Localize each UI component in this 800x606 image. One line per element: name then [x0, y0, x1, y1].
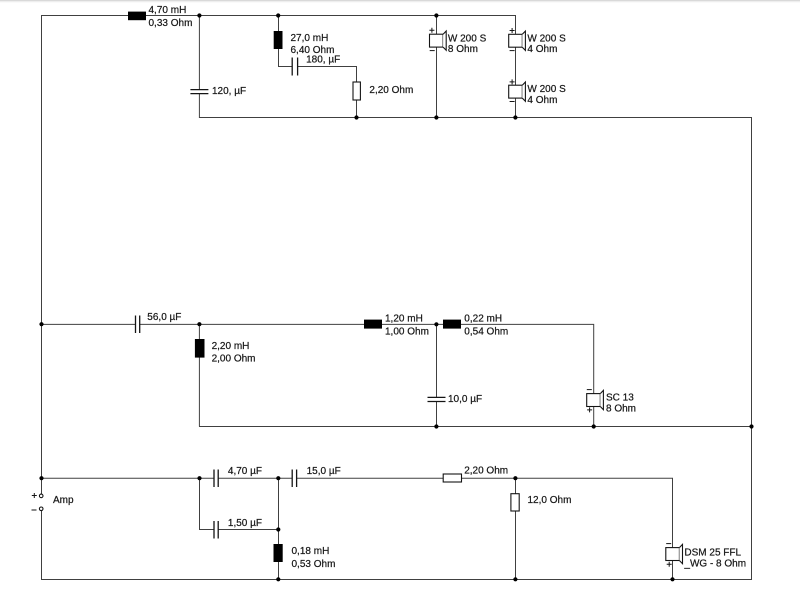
wire: 120uF to top-section bottom bus	[198, 94, 200, 118]
wire: mid bus from 56uF to SC13 elbow	[140, 324, 594, 426]
inductor 0,22 mH / 0,54 Ohm	[443, 314, 508, 338]
resistor 12,0 Ohm	[511, 494, 572, 511]
svg-text:1,50 µF: 1,50 µF	[228, 518, 262, 529]
capacitor 4,70 uF	[214, 466, 262, 487]
capacitor 15,0 uF	[292, 466, 341, 487]
svg-text:2,20 Ohm: 2,20 Ohm	[369, 85, 413, 96]
resistor 2,20 Ohm (bottom section)	[443, 466, 508, 482]
junction node: mid bus / 2,20mH tap	[197, 322, 201, 326]
svg-text:0,53 Ohm: 0,53 Ohm	[292, 559, 336, 570]
junction node: mid bottom bus / right rail	[749, 424, 753, 428]
inductor 1,20 mH / 1,00 Ohm	[364, 314, 429, 338]
loudspeaker DSM 25 FFL _WG - 8 Ohm	[666, 544, 746, 570]
wire: drop through 27mH inductor	[278, 16, 280, 68]
capacitor 10,0 uF	[428, 394, 483, 405]
capacitor 180, uF	[292, 55, 340, 76]
svg-text:0,22 mH: 0,22 mH	[464, 314, 502, 325]
junction node: low bus / 1,50uF tap	[197, 476, 201, 480]
svg-text:2,00 Ohm: 2,00 Ohm	[212, 353, 256, 364]
wire: left rail upper (to amp + terminal)	[41, 15, 43, 494]
loudspeaker W 200 S 4 Ohm (lower)	[509, 79, 566, 106]
wire: 10uF branch upper	[436, 324, 438, 397]
loudspeaker W 200 S 8 Ohm	[429, 28, 486, 56]
svg-text:8 Ohm: 8 Ohm	[448, 44, 478, 55]
wire: 1,50uF branch left elbow	[200, 478, 215, 529]
junction node: SC13 bottom	[592, 424, 596, 428]
inductor 27,0 mH / 6,40 Ohm	[274, 31, 335, 56]
svg-text:4,70 µF: 4,70 µF	[228, 466, 262, 477]
junction node: low bus / 0,18mH tap	[276, 476, 280, 480]
wire: low bus between 4,70uF and 15,0uF	[218, 477, 292, 479]
wire: 2,20mH branch drop	[198, 324, 200, 426]
capacitor 1,50 uF	[214, 518, 262, 539]
capacitor 120, uF	[190, 86, 246, 97]
junction node: left rail low tap	[39, 476, 43, 480]
svg-text:1,20 mH: 1,20 mH	[385, 314, 423, 325]
wire: 1,50uF branch right	[218, 529, 279, 531]
junction node: 10uF bottom	[434, 424, 438, 428]
junction node: 12 Ohm bottom	[513, 577, 517, 581]
junction node: low bus / 12 Ohm tap	[513, 476, 517, 480]
svg-text:0,54 Ohm: 0,54 Ohm	[464, 327, 508, 338]
junction node: series branch bottom	[513, 115, 517, 119]
svg-text:0,33 Ohm: 0,33 Ohm	[149, 18, 193, 29]
svg-text:120, µF: 120, µF	[212, 86, 246, 97]
svg-text:56,0 µF: 56,0 µF	[147, 312, 181, 323]
inductor 2,20 mH / 2,00 Ohm	[195, 339, 256, 364]
junction node: DSM bottom	[670, 577, 674, 581]
wire: bottom bus	[41, 579, 752, 581]
svg-text:2,20 mH: 2,20 mH	[212, 341, 250, 352]
svg-text:8 Ohm: 8 Ohm	[606, 403, 636, 414]
svg-text:15,0 µF: 15,0 µF	[307, 466, 341, 477]
junction node: top bus / 120uF tap	[197, 13, 201, 17]
wire: right rail	[751, 117, 753, 580]
svg-text:W 200 S: W 200 S	[527, 33, 566, 44]
wire: top-section bottom bus	[199, 117, 752, 119]
junction node: top bus / 27mH tap	[276, 13, 280, 17]
wire: top horizontal bus	[41, 15, 516, 17]
junction node: mid bus / 10uF tap	[434, 322, 438, 326]
wire: drop from top bus to 120uF	[198, 16, 200, 90]
wire: speaker W200S-8 branch	[436, 16, 438, 118]
junction node: 1,50uF joins 0,18mH branch	[276, 527, 280, 531]
svg-text:0,18 mH: 0,18 mH	[292, 546, 330, 557]
wire: mid bus left of 56uF	[42, 323, 136, 325]
svg-text:27,0 mH: 27,0 mH	[291, 33, 329, 44]
svg-text:_WG - 8 Ohm: _WG - 8 Ohm	[683, 559, 746, 570]
resistor 2,20 Ohm (top section)	[353, 82, 413, 100]
capacitor 56,0 uF	[136, 312, 182, 333]
junction node: left rail mid tap	[39, 322, 43, 326]
svg-text:180, µF: 180, µF	[306, 55, 340, 66]
svg-text:W 200 S: W 200 S	[448, 33, 487, 44]
wire: series W200S-4 speakers branch	[515, 16, 517, 118]
inductor 4,70 mH / 0,33 Ohm	[128, 5, 192, 29]
svg-text:12,0 Ohm: 12,0 Ohm	[528, 495, 572, 506]
svg-text:DSM 25 FFL: DSM 25 FFL	[684, 548, 741, 559]
wire: 180uF right plate to 2,20 Ohm resistor	[298, 67, 357, 83]
junction node: 0,18mH bottom	[276, 577, 280, 581]
wire: low bus left segment	[42, 477, 215, 479]
svg-text:4 Ohm: 4 Ohm	[527, 95, 557, 106]
wire: mid-section bottom bus	[199, 426, 752, 428]
amplifier Amp input terminals	[32, 493, 75, 511]
wire: 10uF branch lower	[436, 402, 438, 427]
wire: 12,0 Ohm branch	[515, 478, 517, 579]
inductor 0,18 mH / 0,53 Ohm	[274, 544, 336, 570]
wire: 2,20 Ohm resistor to bottom bus	[356, 100, 358, 118]
junction node: top bus / W200S-8 branch	[434, 13, 438, 17]
wire: low bus from 2,20 Ohm to DSM drop	[462, 478, 673, 579]
svg-text:2,20 Ohm: 2,20 Ohm	[464, 466, 508, 477]
wire: 0,18mH branch	[278, 478, 280, 579]
junction node: 2,20 Ohm to bottom bus	[354, 115, 358, 119]
wire: low bus from 15,0uF to 2,20 Ohm	[297, 477, 444, 479]
svg-text:4 Ohm: 4 Ohm	[527, 44, 557, 55]
svg-text:Amp: Amp	[53, 495, 74, 506]
svg-text:4,70 mH: 4,70 mH	[149, 5, 187, 16]
wire: left rail lower (from amp - terminal)	[41, 511, 43, 580]
loudspeaker W 200 S 4 Ohm (upper)	[509, 28, 566, 55]
loudspeaker SC 13 8 Ohm	[587, 390, 636, 415]
svg-text:W 200 S: W 200 S	[527, 84, 566, 95]
wire: elbow 27mH bottom to 180uF left plate	[278, 66, 292, 68]
svg-text:10,0 µF: 10,0 µF	[448, 394, 482, 405]
svg-text:SC 13: SC 13	[606, 393, 634, 404]
junction node: W200S-8 bottom	[434, 115, 438, 119]
svg-text:1,00 Ohm: 1,00 Ohm	[385, 327, 429, 338]
